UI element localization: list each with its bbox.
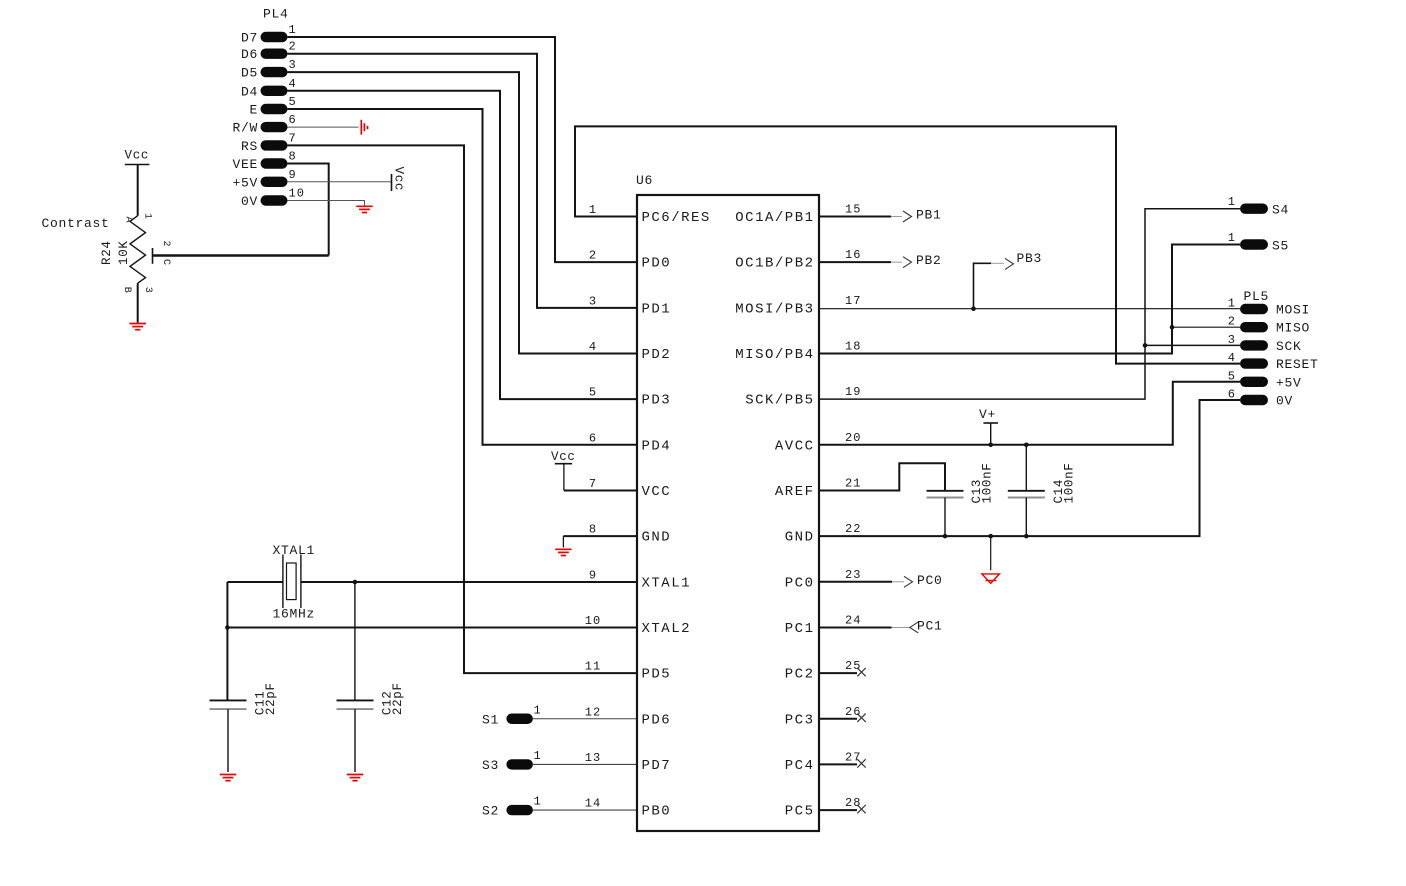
wire PC2 pin 25 stub: [819, 672, 857, 674]
wire MISO to PL5: [1172, 326, 1240, 328]
potentiometer R24 10K (Contrast): [100, 213, 171, 293]
svg-text:PB0: PB0: [642, 804, 672, 820]
svg-text:8: 8: [289, 150, 297, 164]
svg-text:1: 1: [1228, 195, 1236, 209]
connector PL4: [232, 7, 305, 210]
no-connect pin 26: [857, 714, 865, 722]
svg-text:S3: S3: [482, 758, 499, 773]
ground (C11): [220, 775, 236, 781]
svg-text:PB1: PB1: [916, 208, 942, 223]
svg-text:D5: D5: [241, 66, 258, 81]
wire RESET net (pin 1 to PL5): [575, 126, 1240, 363]
svg-text:23: 23: [845, 568, 862, 582]
wire AVCC pin 20 to +5V: [819, 382, 1240, 445]
svg-text:C: C: [160, 259, 171, 265]
wire GND pin 8: [563, 535, 637, 537]
svg-text:B: B: [121, 287, 132, 293]
wire D7 / PD0 net: [288, 37, 638, 262]
svg-text:16MHz: 16MHz: [273, 607, 316, 622]
svg-text:2: 2: [589, 249, 597, 263]
power V+: [979, 407, 998, 445]
svg-text:11: 11: [585, 660, 602, 674]
svg-text:24: 24: [845, 613, 862, 627]
svg-text:27: 27: [845, 750, 862, 764]
ground (pin 8): [555, 549, 571, 555]
wire crystal to XTAL1 pin 9: [301, 581, 637, 583]
wire SCK to PL5: [1145, 344, 1240, 346]
svg-text:PD2: PD2: [642, 347, 672, 363]
junction SCK: [1143, 343, 1148, 348]
no-connect pin 28: [857, 805, 865, 813]
svg-text:2: 2: [160, 240, 171, 246]
wire D5 / PD2 net: [288, 72, 638, 353]
svg-text:1: 1: [534, 749, 542, 763]
svg-text:+5V: +5V: [1276, 375, 1302, 390]
svg-text:26: 26: [845, 705, 862, 719]
svg-text:Contrast: Contrast: [42, 216, 110, 231]
ground flag (red open arrow): [982, 574, 1000, 583]
svg-text:MOSI/PB3: MOSI/PB3: [735, 301, 814, 317]
svg-text:PD4: PD4: [642, 438, 672, 454]
svg-text:4: 4: [289, 77, 297, 91]
svg-text:SCK: SCK: [1276, 339, 1302, 354]
svg-text:3: 3: [589, 294, 597, 308]
junction crystal/C12: [353, 580, 358, 585]
svg-text:15: 15: [845, 203, 862, 217]
svg-text:PC0: PC0: [917, 573, 943, 588]
svg-text:S1: S1: [482, 712, 499, 727]
wire AVCC to C14: [1025, 445, 1027, 490]
wire E / PD4 net: [288, 109, 638, 445]
svg-text:RS: RS: [241, 139, 258, 154]
svg-text:D7: D7: [241, 31, 258, 46]
wire MISO/PB4 pin 18 to S5: [819, 245, 1240, 354]
svg-text:22: 22: [845, 522, 862, 536]
wire crystal left down to C11: [226, 582, 228, 700]
svg-text:0V: 0V: [1276, 394, 1293, 409]
svg-text:PB2: PB2: [916, 253, 942, 268]
wire to Vcc symbol: [563, 464, 565, 491]
svg-text:5: 5: [589, 386, 597, 400]
arrow PB2: [903, 257, 912, 268]
capacitor C12 22pF: [337, 682, 406, 715]
svg-text:MISO: MISO: [1276, 321, 1310, 336]
svg-text:100nF: 100nF: [981, 462, 995, 503]
svg-text:A: A: [123, 216, 134, 222]
svg-text:PD1: PD1: [642, 301, 672, 317]
arrow PC0: [904, 576, 913, 587]
svg-text:6: 6: [1228, 388, 1236, 402]
svg-text:22pF: 22pF: [391, 682, 405, 715]
svg-text:E: E: [249, 103, 258, 118]
svg-text:V+: V+: [979, 407, 996, 422]
wire XTAL2 pin 10: [227, 626, 637, 628]
wire PB3 branch: [974, 263, 992, 308]
svg-text:VCC: VCC: [642, 484, 672, 500]
svg-text:6: 6: [289, 113, 297, 127]
svg-text:3: 3: [1228, 333, 1236, 347]
svg-text:AREF: AREF: [775, 484, 815, 500]
svg-text:+5V: +5V: [232, 175, 258, 190]
svg-text:16: 16: [845, 248, 862, 262]
wire R/W to ground: [288, 126, 359, 128]
svg-text:R/W: R/W: [232, 121, 258, 136]
svg-text:PC4: PC4: [785, 758, 815, 774]
svg-text:PC6/RES: PC6/RES: [642, 210, 711, 226]
svg-text:GND: GND: [785, 530, 815, 546]
ground (R/W, rotated): [361, 120, 367, 135]
svg-text:12: 12: [585, 705, 602, 719]
svg-text:1: 1: [289, 23, 297, 37]
svg-text:PL4: PL4: [263, 7, 289, 22]
wire VEE: [288, 164, 329, 256]
svg-text:14: 14: [585, 797, 602, 811]
junction MISO: [1170, 325, 1175, 330]
svg-text:25: 25: [845, 659, 862, 673]
svg-text:PC5: PC5: [785, 804, 815, 820]
wire SCK/PB5 pin 19 to S4: [819, 209, 1240, 399]
svg-text:RESET: RESET: [1276, 357, 1319, 372]
svg-text:4: 4: [1228, 351, 1236, 365]
wire PC1 pin 24: [819, 626, 892, 628]
svg-text:5: 5: [1228, 369, 1236, 383]
svg-text:3: 3: [142, 287, 153, 293]
connector PL5: [1228, 289, 1319, 409]
junction V+: [988, 443, 993, 448]
wire PC0 pin 23: [819, 581, 892, 583]
wire PC4 pin 27 stub: [819, 763, 857, 765]
wire to C12: [354, 582, 356, 700]
svg-text:2: 2: [289, 40, 297, 54]
svg-text:1: 1: [1228, 231, 1236, 245]
capacitor C13 100nF: [927, 462, 995, 503]
junction ground flag: [988, 534, 993, 539]
svg-text:21: 21: [845, 476, 862, 490]
svg-text:R24: R24: [100, 240, 114, 265]
svg-text:SCK/PB5: SCK/PB5: [745, 393, 814, 409]
junction PB3 branch: [971, 306, 976, 311]
svg-text:6: 6: [589, 431, 597, 445]
svg-text:7: 7: [289, 131, 297, 145]
svg-text:19: 19: [845, 385, 862, 399]
svg-text:9: 9: [289, 168, 297, 182]
svg-text:5: 5: [289, 95, 297, 109]
no-connect pin 25: [857, 668, 865, 676]
svg-text:4: 4: [589, 340, 597, 354]
IC U6 (microcontroller): [585, 173, 862, 831]
svg-text:PL5: PL5: [1244, 289, 1270, 304]
svg-text:S5: S5: [1272, 239, 1289, 254]
svg-text:PC1: PC1: [917, 618, 943, 633]
svg-text:28: 28: [845, 796, 862, 810]
svg-text:XTAL1: XTAL1: [642, 575, 692, 591]
wire VEE to R24 wiper: [153, 254, 329, 257]
wire C14 to GND: [1025, 498, 1027, 537]
svg-text:PC3: PC3: [785, 712, 815, 728]
wire +5V to Vcc: [288, 181, 392, 183]
svg-text:10: 10: [289, 187, 306, 201]
wire D6 / PD1 net: [288, 54, 638, 308]
wire C12 to ground: [354, 709, 356, 772]
pad S3: [482, 749, 542, 773]
svg-text:S4: S4: [1272, 203, 1289, 218]
wire S1 to IC: [533, 718, 637, 720]
svg-text:1: 1: [142, 213, 153, 219]
wire crystal left: [227, 581, 283, 583]
arrow PB3: [1005, 258, 1014, 269]
svg-text:D4: D4: [241, 84, 258, 99]
svg-text:1: 1: [589, 203, 597, 217]
svg-text:Vcc: Vcc: [551, 450, 576, 464]
svg-text:2: 2: [1228, 315, 1236, 329]
svg-text:18: 18: [845, 339, 862, 353]
pad S4: [1228, 195, 1289, 218]
svg-text:0V: 0V: [241, 194, 258, 209]
svg-text:1: 1: [534, 703, 542, 717]
svg-text:PB3: PB3: [1017, 251, 1043, 266]
wire C13 to GND: [944, 498, 946, 537]
pad S2: [482, 795, 542, 819]
svg-text:PC2: PC2: [785, 667, 815, 683]
ground (C12): [347, 775, 363, 781]
capacitor C11 22pF: [210, 682, 279, 715]
power Vcc (top of R24): [125, 149, 150, 165]
wire to ground flag: [990, 536, 992, 570]
wire PC3 pin 26 stub: [819, 718, 857, 720]
wire to ground: [562, 536, 564, 547]
svg-text:PD6: PD6: [642, 712, 672, 728]
wire AREF pin 21 to C13: [819, 463, 945, 490]
wire MOSI/PB3 pin 17 to PL5 MOSI: [819, 308, 1240, 310]
arrow PC1: [910, 622, 919, 633]
ground (0V): [356, 206, 372, 212]
svg-text:10K: 10K: [117, 240, 131, 265]
wire R24 to ground: [137, 283, 139, 322]
junction C14 top: [1024, 443, 1029, 448]
wire PC5 pin 28 stub: [819, 809, 857, 811]
wire OC1B/PB2 pin 16: [819, 261, 891, 263]
svg-text:PD0: PD0: [642, 256, 672, 272]
svg-text:1: 1: [534, 795, 542, 809]
svg-text:AVCC: AVCC: [775, 438, 815, 454]
svg-text:17: 17: [845, 294, 862, 308]
wire GND pin 22 to 0V: [819, 400, 1240, 536]
svg-text:MISO/PB4: MISO/PB4: [735, 347, 814, 363]
svg-text:22pF: 22pF: [264, 682, 278, 715]
wire C11 to ground: [227, 709, 229, 772]
pad S1: [482, 703, 542, 727]
svg-text:100nF: 100nF: [1063, 462, 1077, 503]
ground (R24): [130, 324, 146, 330]
wire 0V to ground: [288, 201, 365, 206]
svg-text:PC1: PC1: [785, 621, 815, 637]
svg-text:9: 9: [589, 568, 597, 582]
wire D4 / PD3 net: [288, 91, 638, 399]
svg-text:PC0: PC0: [785, 575, 815, 591]
svg-text:PD3: PD3: [642, 393, 672, 409]
no-connect pin 27: [857, 759, 865, 767]
svg-text:3: 3: [289, 58, 297, 72]
svg-text:XTAL1: XTAL1: [273, 543, 316, 558]
svg-text:Vcc: Vcc: [392, 167, 406, 192]
svg-text:PD5: PD5: [642, 667, 672, 683]
svg-text:XTAL2: XTAL2: [642, 621, 692, 637]
arrow PB1: [903, 211, 912, 222]
svg-text:7: 7: [589, 477, 597, 491]
svg-text:GND: GND: [642, 530, 672, 546]
power Vcc (pin 7): [551, 450, 576, 464]
svg-text:U6: U6: [636, 173, 653, 188]
power Vcc (rotated, at +5V): [392, 167, 406, 192]
crystal XTAL1 16MHz: [273, 543, 316, 622]
svg-text:10: 10: [585, 614, 602, 628]
svg-text:8: 8: [589, 523, 597, 537]
svg-text:20: 20: [845, 431, 862, 445]
wire S3 to IC: [533, 763, 637, 765]
wire OC1A/PB1 pin 15: [819, 216, 891, 218]
wire VCC pin 7: [564, 489, 637, 491]
svg-text:1: 1: [1228, 297, 1236, 311]
junction C14 bottom: [1024, 534, 1029, 539]
wire Vcc to R24: [137, 165, 139, 216]
svg-text:MOSI: MOSI: [1276, 303, 1310, 318]
svg-text:D6: D6: [241, 47, 258, 62]
svg-text:Vcc: Vcc: [125, 149, 150, 163]
wire RS / PD5 net: [288, 145, 638, 673]
svg-text:OC1A/PB1: OC1A/PB1: [735, 210, 814, 226]
svg-text:13: 13: [585, 751, 602, 765]
svg-text:OC1B/PB2: OC1B/PB2: [735, 256, 814, 272]
svg-text:VEE: VEE: [232, 157, 258, 172]
svg-text:PD7: PD7: [642, 758, 672, 774]
wire S2 to IC: [533, 809, 637, 811]
junction XTAL2/C11: [225, 625, 230, 630]
svg-text:S2: S2: [482, 804, 499, 819]
junction C13 bottom: [943, 534, 948, 539]
capacitor C14 100nF: [1008, 462, 1077, 503]
pad S5: [1228, 231, 1289, 254]
